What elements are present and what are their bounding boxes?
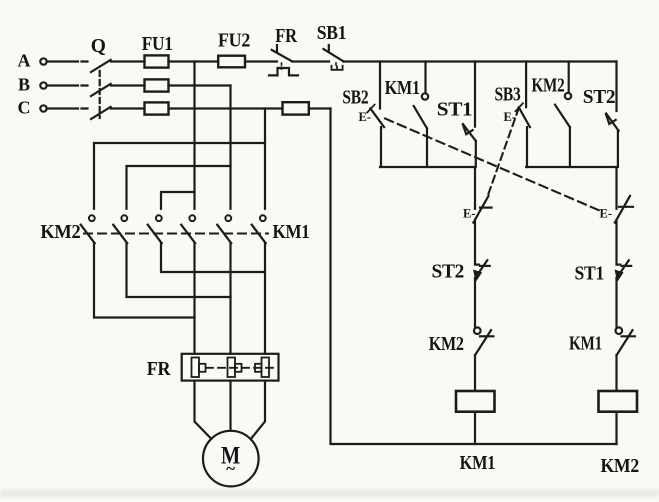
svg-text:FR: FR xyxy=(275,26,298,47)
svg-text:ST1: ST1 xyxy=(575,264,605,285)
svg-text:FR: FR xyxy=(147,359,172,380)
svg-text:KM2: KM2 xyxy=(532,76,565,97)
svg-text:FU1: FU1 xyxy=(142,34,173,55)
svg-text:SB1: SB1 xyxy=(317,23,347,44)
svg-text:E-: E- xyxy=(463,207,476,221)
svg-text:Q: Q xyxy=(91,36,106,57)
svg-text:ST1: ST1 xyxy=(437,100,473,121)
svg-text:ST2: ST2 xyxy=(432,262,465,283)
svg-text:SB2: SB2 xyxy=(342,88,368,109)
svg-text:KM1: KM1 xyxy=(273,222,310,243)
svg-text:~: ~ xyxy=(226,459,235,478)
svg-text:KM2: KM2 xyxy=(429,334,464,355)
svg-text:KM1: KM1 xyxy=(385,78,420,99)
svg-text:KM2: KM2 xyxy=(600,456,639,477)
svg-text:A: A xyxy=(18,51,31,71)
svg-text:KM1: KM1 xyxy=(569,334,602,355)
svg-text:ST2: ST2 xyxy=(583,87,616,108)
svg-text:E-: E- xyxy=(600,207,613,221)
svg-text:E-: E- xyxy=(504,110,517,124)
svg-text:FU2: FU2 xyxy=(218,31,250,52)
svg-text:B: B xyxy=(18,75,30,95)
svg-text:KM1: KM1 xyxy=(460,453,496,474)
svg-text:E-: E- xyxy=(359,110,372,124)
svg-text:SB3: SB3 xyxy=(495,85,521,106)
svg-text:C: C xyxy=(18,98,31,118)
svg-text:KM2: KM2 xyxy=(40,222,80,243)
